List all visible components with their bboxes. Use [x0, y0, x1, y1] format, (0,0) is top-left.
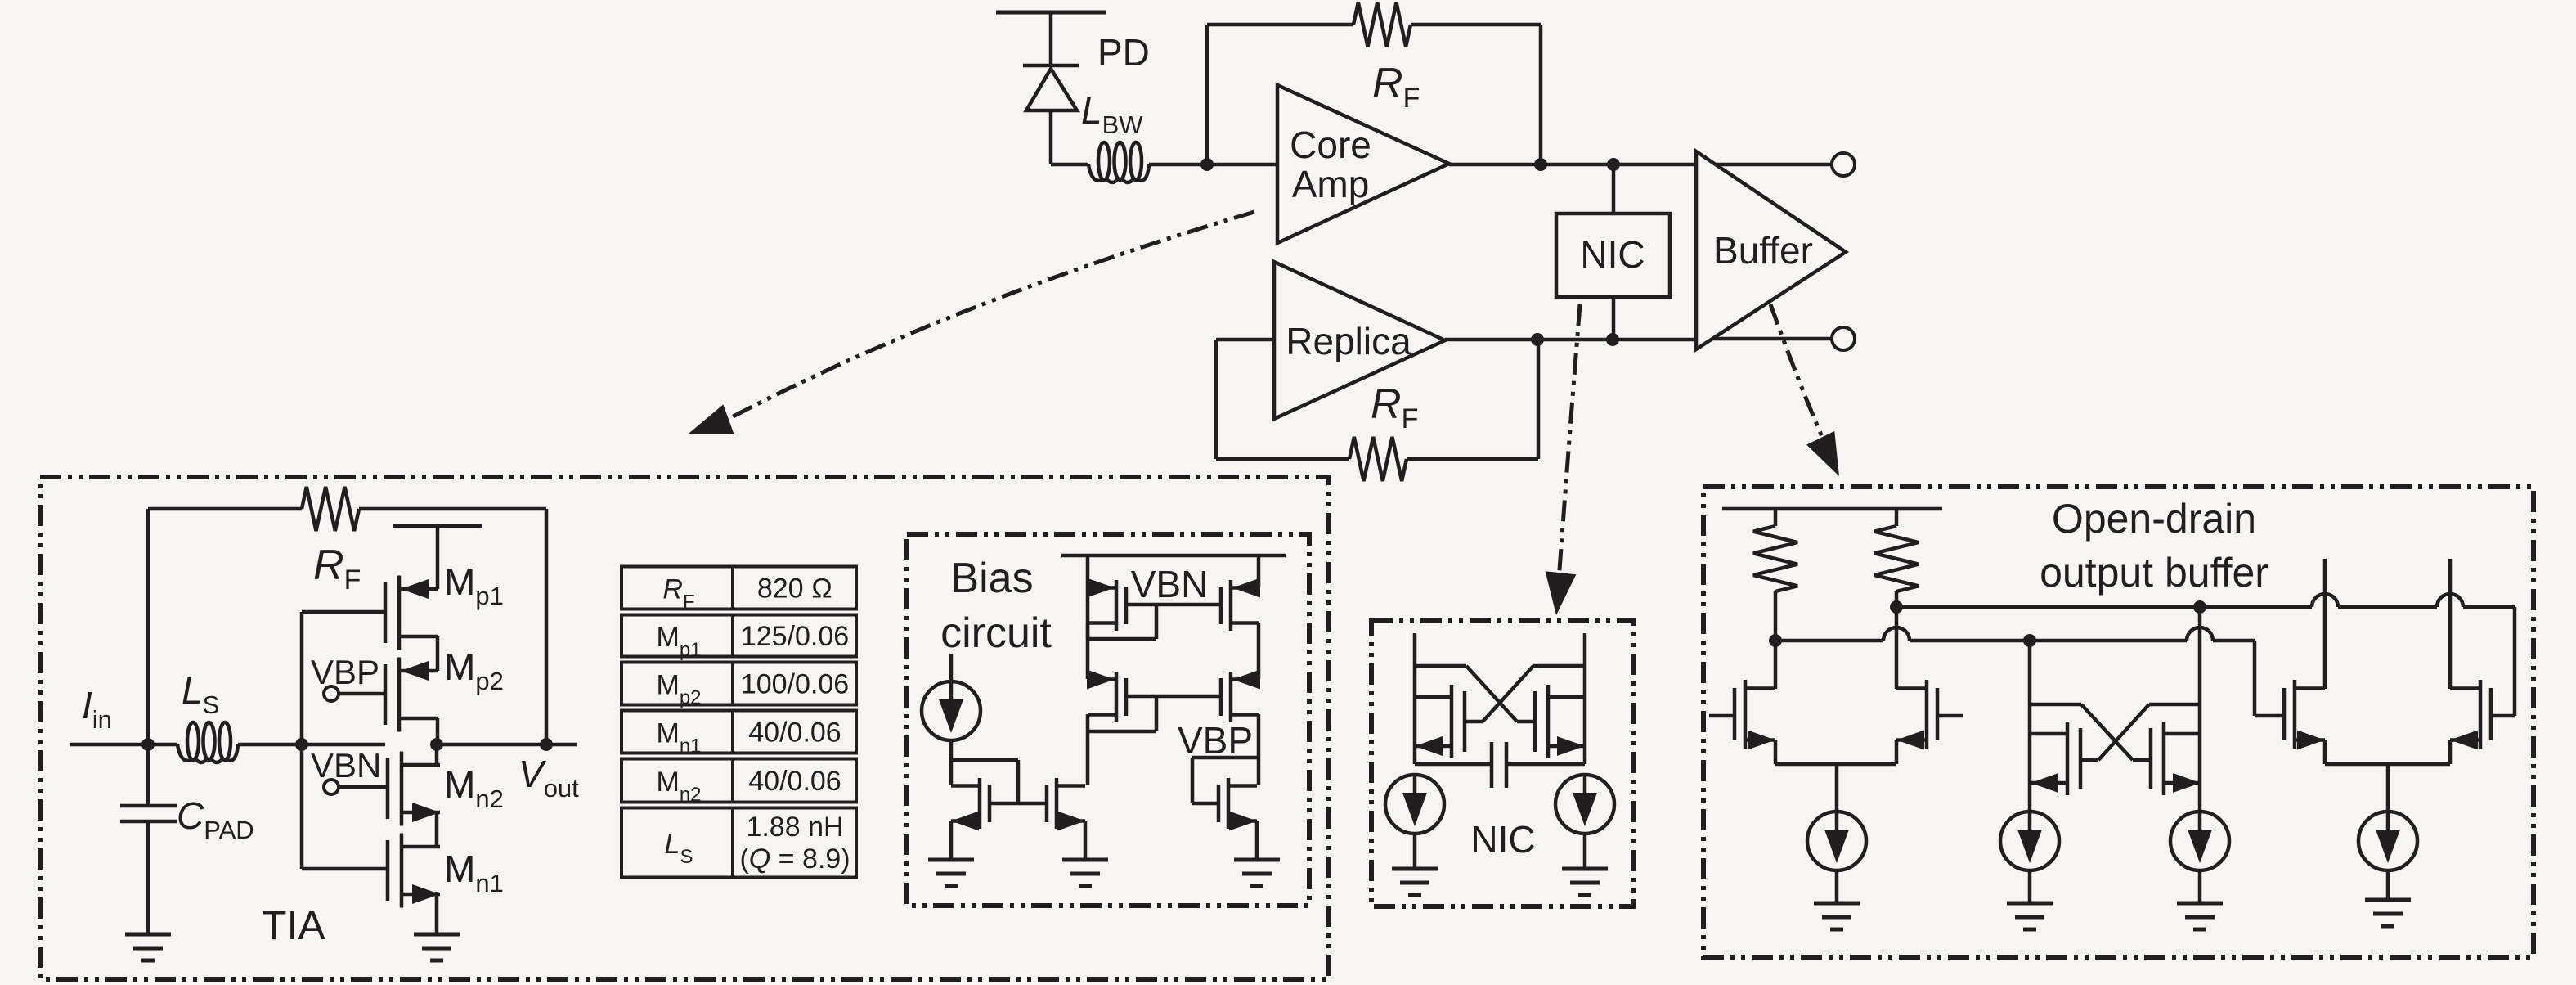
wire NIC cross right: [1465, 666, 1585, 722]
label Mn2: [444, 763, 504, 813]
wire feedback top left: [1207, 23, 1353, 27]
svg-text:VBP: VBP: [1178, 719, 1253, 762]
wire T5 source to ground: [949, 821, 954, 860]
node bus lower left: [1769, 634, 1782, 647]
svg-text:NIC: NIC: [1470, 818, 1535, 861]
ground (bias T6): [1062, 860, 1108, 886]
ground (xpair right): [2177, 903, 2223, 929]
resistor RL1: [1753, 509, 1797, 641]
inductor L_BW: [1088, 142, 1149, 182]
wire Replica output: [1445, 338, 1696, 342]
transistor diff2 left: [2284, 680, 2325, 750]
capacitor C_PAD: [120, 744, 177, 934]
wire VBN gate line: [1126, 603, 1221, 607]
wire T1-T3 stack: [1086, 623, 1090, 679]
wire TIA output: [438, 743, 577, 747]
label TIA: [262, 902, 325, 948]
ground (C_PAD): [125, 934, 171, 960]
label L_S: [182, 669, 219, 719]
transistor Mn2: [388, 752, 440, 826]
op-amp Core Amp: [1277, 85, 1449, 243]
pointer arrow to TIA detail: [689, 212, 1254, 434]
wire NIC cross left: [1415, 666, 1535, 722]
wire diff2 tail: [2325, 740, 2450, 812]
label V_out: [518, 753, 579, 803]
wire output node to Mn2 drain: [435, 744, 439, 765]
label output buffer: [2040, 550, 2269, 596]
node bus upper left: [1890, 600, 1903, 614]
wire diff1 left gate stub: [1709, 714, 1735, 718]
ground (NIC right): [1562, 869, 1608, 895]
wire xpair right drain: [2198, 607, 2202, 783]
wire PD cathode: [1049, 12, 1053, 65]
label RF TIA: [313, 542, 361, 596]
transistor bias T7 VBP: [1218, 778, 1257, 831]
wire xpair right source: [2198, 783, 2202, 812]
wire T3 to T6 stack: [1086, 714, 1090, 785]
ground (bias T5): [928, 860, 974, 886]
wire xpair left source: [2028, 783, 2032, 812]
terminal VBN: [324, 780, 339, 794]
node TIA output outer: [540, 738, 553, 751]
ground (bias T7): [1234, 860, 1280, 886]
wire T1 leads: [1086, 587, 1090, 639]
ground (diff1): [1814, 903, 1860, 929]
resistor RF (replica feedback): [1349, 437, 1407, 481]
terminal output-: [1832, 327, 1855, 350]
bus lower: [1775, 627, 2255, 641]
transistor diff1 left: [1735, 680, 1775, 750]
label Replica: [1286, 320, 1411, 362]
bus upper: [1896, 594, 2515, 607]
wire lower bus to gate: [2255, 641, 2284, 716]
wire T3 diode loop: [1088, 696, 1156, 731]
svg-text:TIA: TIA: [262, 902, 325, 948]
node core output: [1534, 158, 1547, 171]
wire T1 diode loop: [1088, 605, 1156, 639]
current source xpair right: [2170, 812, 2229, 903]
supply rail (bias): [1061, 554, 1286, 558]
label VBN bias: [1131, 563, 1209, 605]
svg-text:output buffer: output buffer: [2040, 550, 2269, 596]
label Buffer: [1713, 229, 1813, 272]
wire Mn1 gate: [302, 867, 388, 871]
supply rail (buffer): [1722, 507, 1942, 511]
transistor diff1 right: [1896, 680, 1937, 750]
transistor Mp2: [385, 658, 438, 732]
wire upper bus to gate: [2491, 607, 2515, 716]
wire Mp2 drain to output node: [436, 718, 440, 744]
terminal VBP: [324, 686, 339, 701]
svg-text:VBN: VBN: [1131, 563, 1209, 605]
label I_in: [82, 684, 112, 734]
wire diff2 right drain open: [2448, 559, 2453, 689]
photodiode PD: [1023, 65, 1079, 164]
node input (TIA in): [1200, 158, 1214, 171]
ground (xpair left): [2007, 903, 2053, 929]
wire bias rail to T1: [1086, 555, 1090, 587]
node TIA input left: [141, 738, 155, 751]
node replica output: [1531, 333, 1544, 346]
svg-text:Replica: Replica: [1286, 320, 1411, 362]
label Open-drain: [2052, 496, 2256, 542]
label circuit: [940, 609, 1052, 657]
wire feedback left riser: [1205, 25, 1209, 164]
wire Mp1 drain to Mp2 source: [436, 565, 440, 671]
wire bias rail to T2: [1257, 555, 1261, 587]
wire inductor to input node: [1149, 163, 1207, 167]
wire rail to Mp1: [436, 526, 440, 565]
svg-text:1.88 nH: 1.88 nH: [746, 812, 843, 843]
svg-text:NIC: NIC: [1580, 233, 1645, 276]
wire feedback right riser: [1539, 25, 1543, 164]
wire TIA feedback top: [148, 509, 546, 744]
wire diff2 left drain open: [2323, 559, 2327, 689]
svg-text:100/0.06: 100/0.06: [741, 669, 849, 700]
wire input to Core Amp: [1207, 163, 1277, 167]
resistor RF (TIA): [302, 487, 359, 531]
transistor xpair right: [2151, 722, 2201, 795]
transistor bias T3: [1087, 670, 1126, 723]
wire VBN to Mn2 gate: [339, 785, 388, 789]
wire diff1 left drain: [1774, 641, 1778, 689]
wire T7 diode loop: [1192, 758, 1257, 803]
current source NIC left: [1385, 775, 1444, 869]
transistor Mn1: [388, 834, 440, 908]
label Mn1: [444, 848, 504, 897]
current source NIC right: [1555, 775, 1614, 869]
op-amp Buffer: [1696, 151, 1846, 349]
transistor NIC left: [1415, 685, 1465, 758]
wire Replica input: [1216, 338, 1274, 342]
transistor NIC right: [1535, 685, 1585, 758]
ground (diff2): [2365, 900, 2411, 926]
wire T7 source to ground: [1255, 821, 1259, 860]
label Mp1: [444, 560, 504, 610]
ground (Mn1): [414, 934, 460, 960]
svg-text:Bias: Bias: [950, 555, 1033, 602]
wire Mn2 source to Mn1 drain: [435, 812, 439, 848]
svg-text:820 Ω: 820 Ω: [757, 573, 832, 605]
block NIC: [1556, 214, 1670, 297]
transistor diff2 right: [2450, 680, 2491, 750]
wire replica fb right: [1407, 340, 1538, 459]
wire Core Amp output: [1449, 163, 1696, 167]
pointer arrow to NIC detail: [1546, 304, 1580, 615]
svg-text:125/0.06: 125/0.06: [741, 621, 849, 652]
label Bias: [950, 555, 1033, 602]
wire NIC right drain: [1583, 633, 1587, 764]
node gate bus: [295, 738, 308, 751]
transistor bias T1: [1087, 578, 1126, 632]
current source diff1: [1807, 812, 1866, 903]
label Mp2: [444, 645, 504, 695]
label Core: [1290, 124, 1371, 166]
ground (NIC left): [1392, 869, 1438, 895]
label C_PAD: [177, 794, 254, 844]
wire buffer output bottom: [1712, 337, 1832, 341]
TIA dash-dot box: [40, 477, 1329, 979]
wire LS to gate bus: [238, 743, 385, 747]
wire replica fb left: [1216, 340, 1349, 459]
svg-text:Core: Core: [1290, 124, 1371, 166]
svg-text:40/0.06: 40/0.06: [748, 717, 841, 749]
node NIC top tap: [1607, 158, 1620, 171]
open-drain dash-dot box: [1703, 487, 2533, 957]
transistor xpair left: [2031, 722, 2080, 795]
transistor Mp1: [385, 576, 438, 650]
wire T6 source to ground: [1084, 821, 1088, 860]
label RF core: [1372, 60, 1420, 114]
wire CS to mirror: [951, 760, 1018, 803]
label VBP: [311, 653, 379, 691]
wire diff1 tail: [1775, 740, 1896, 812]
label RF replica: [1371, 380, 1418, 434]
svg-text:40/0.06: 40/0.06: [748, 766, 841, 797]
resistor RF (core feedback): [1353, 2, 1411, 47]
wire T4 to VBP transistor: [1257, 714, 1261, 785]
terminal output+: [1832, 153, 1855, 176]
wire Mn1 source to ground: [435, 892, 439, 934]
svg-text:VBN: VBN: [311, 746, 381, 785]
transistor bias T2: [1221, 578, 1260, 632]
op-amp Replica: [1274, 262, 1445, 419]
node bus upper mid: [2193, 600, 2206, 614]
wire xpair cross left: [2030, 704, 2151, 760]
wire buffer output top: [1716, 163, 1832, 167]
wire NIC left drain: [1413, 633, 1417, 764]
label NIC block: [1580, 233, 1645, 276]
current source xpair left: [2000, 812, 2059, 903]
wire T2-T4 stack: [1257, 623, 1261, 679]
svg-text:VBP: VBP: [311, 653, 379, 691]
wire Mp1 gate: [302, 610, 385, 614]
wire NIC bottom stub: [1612, 297, 1616, 339]
wire diff1 right gate stub: [1937, 714, 1963, 718]
node bus lower mid: [2023, 634, 2036, 647]
wire VBP to Mp2 gate: [339, 692, 385, 696]
wire T3T4 gate line: [1126, 695, 1221, 699]
label NIC detail: [1470, 818, 1535, 861]
wire diff1 right drain: [1895, 607, 1899, 689]
label VBN: [311, 746, 381, 785]
wire gate bus vertical: [300, 612, 304, 869]
wire xpair left drain: [2028, 641, 2032, 783]
svg-text:PD: PD: [1097, 31, 1150, 74]
table device parameters: [622, 567, 856, 878]
inductor L_S: [177, 722, 238, 762]
resistor RL2: [1874, 509, 1919, 607]
wire feedback top right: [1411, 23, 1541, 27]
svg-text:circuit: circuit: [940, 609, 1052, 657]
svg-text:(Q = 8.9): (Q = 8.9): [739, 843, 850, 875]
capacitor NIC: [1415, 742, 1585, 788]
supply rail (TIA): [393, 524, 482, 528]
transistor bias T4: [1221, 670, 1260, 723]
wire mirror gate line: [990, 802, 1047, 806]
bias circuit dash-dot box: [907, 534, 1309, 906]
svg-text:Open-drain: Open-drain: [2052, 496, 2256, 542]
wire xpair cross right: [2080, 704, 2200, 760]
wire NIC top stub: [1612, 164, 1616, 214]
node NIC bottom tap: [1606, 333, 1619, 346]
wire TIA input: [70, 743, 177, 747]
current source diff2: [2358, 812, 2417, 900]
label VBP bias: [1178, 719, 1253, 762]
pointer arrow to buffer detail: [1770, 304, 1839, 476]
svg-text:Amp: Amp: [1292, 163, 1370, 205]
transistor bias T6: [1047, 778, 1085, 831]
label Amp: [1292, 163, 1370, 205]
label PD: [1097, 31, 1150, 74]
node TIA output inner: [430, 738, 443, 751]
wire PD to inductor: [1051, 163, 1088, 167]
photodiode PD supply bar: [996, 11, 1106, 15]
transistor bias T5: [951, 778, 990, 831]
current source bias: [922, 654, 981, 785]
label L_BW: [1081, 89, 1143, 139]
NIC dash-dot box: [1371, 621, 1633, 906]
svg-text:Buffer: Buffer: [1713, 229, 1813, 272]
